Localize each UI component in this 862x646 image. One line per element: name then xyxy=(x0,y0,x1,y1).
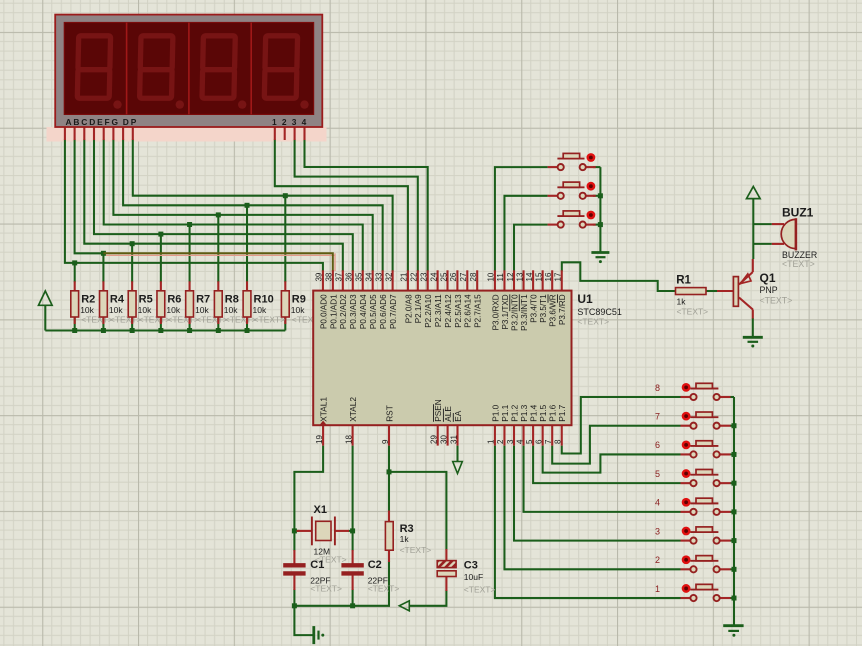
svg-text:P1.5: P1.5 xyxy=(538,404,548,421)
svg-text:13: 13 xyxy=(515,272,524,281)
svg-text:C1: C1 xyxy=(310,559,324,571)
svg-text:ALE: ALE xyxy=(443,406,453,422)
svg-text:<TEXT>: <TEXT> xyxy=(196,315,228,325)
svg-text:P3.1/TXD: P3.1/TXD xyxy=(501,294,510,329)
svg-text:P0.4/AD4: P0.4/AD4 xyxy=(359,294,368,329)
svg-text:17: 17 xyxy=(554,272,563,281)
svg-text:STC89C51: STC89C51 xyxy=(577,307,622,317)
svg-text:P1.6: P1.6 xyxy=(548,404,558,421)
svg-text:P3.6/WR: P3.6/WR xyxy=(549,294,558,327)
svg-text:1k: 1k xyxy=(400,534,410,544)
svg-text:30: 30 xyxy=(439,435,448,444)
svg-text:25: 25 xyxy=(439,272,448,281)
svg-text:10k: 10k xyxy=(166,305,180,315)
svg-text:18: 18 xyxy=(344,435,353,444)
svg-text:3: 3 xyxy=(655,526,660,536)
svg-text:C3: C3 xyxy=(464,560,478,572)
svg-text:P3.3/INT1: P3.3/INT1 xyxy=(520,294,529,331)
svg-text:8: 8 xyxy=(554,439,563,444)
svg-text:3: 3 xyxy=(506,439,515,444)
svg-text:R9: R9 xyxy=(292,294,306,306)
svg-text:P0.5/AD5: P0.5/AD5 xyxy=(369,294,378,329)
svg-text:8: 8 xyxy=(655,383,660,393)
svg-text:<TEXT>: <TEXT> xyxy=(139,315,171,325)
svg-text:10k: 10k xyxy=(224,305,238,315)
svg-text:P0.2/AD2: P0.2/AD2 xyxy=(339,294,348,329)
svg-text:4: 4 xyxy=(515,439,524,444)
svg-text:<TEXT>: <TEXT> xyxy=(167,315,199,325)
svg-text:<TEXT>: <TEXT> xyxy=(400,545,432,555)
svg-text:10k: 10k xyxy=(291,305,305,315)
svg-text:P2.6/A14: P2.6/A14 xyxy=(464,294,473,328)
svg-text:DP: DP xyxy=(123,117,137,127)
svg-text:10k: 10k xyxy=(138,305,152,315)
svg-text:U1: U1 xyxy=(577,292,593,306)
svg-text:27: 27 xyxy=(459,272,468,281)
svg-text:X1: X1 xyxy=(314,504,327,516)
svg-text:P3.2/INT0: P3.2/INT0 xyxy=(510,294,519,331)
svg-text:P0.7/AD7: P0.7/AD7 xyxy=(389,294,398,329)
svg-text:<TEXT>: <TEXT> xyxy=(782,259,815,269)
svg-text:26: 26 xyxy=(449,272,458,281)
svg-text:P3.0/RXD: P3.0/RXD xyxy=(491,294,500,330)
svg-text:C2: C2 xyxy=(368,559,382,571)
svg-text:R8: R8 xyxy=(225,294,239,306)
svg-text:BUZ1: BUZ1 xyxy=(782,206,814,220)
svg-text:14: 14 xyxy=(525,272,534,281)
svg-text:<TEXT>: <TEXT> xyxy=(254,315,286,325)
svg-text:R1: R1 xyxy=(676,275,691,287)
svg-text:RST: RST xyxy=(384,405,394,422)
svg-text:7: 7 xyxy=(655,412,660,422)
svg-text:29: 29 xyxy=(430,435,439,444)
svg-text:4: 4 xyxy=(302,117,307,127)
svg-text:P0.3/AD3: P0.3/AD3 xyxy=(349,294,358,329)
svg-text:4: 4 xyxy=(655,498,660,508)
svg-text:<TEXT>: <TEXT> xyxy=(464,585,496,595)
svg-text:32: 32 xyxy=(384,272,393,281)
svg-text:1k: 1k xyxy=(677,297,687,307)
svg-text:P2.3/A11: P2.3/A11 xyxy=(434,294,443,327)
svg-text:37: 37 xyxy=(335,272,344,281)
svg-text:10k: 10k xyxy=(195,305,209,315)
svg-text:6: 6 xyxy=(655,440,660,450)
svg-text:<TEXT>: <TEXT> xyxy=(760,296,793,306)
svg-text:11: 11 xyxy=(496,273,505,282)
svg-text:P3.4/T0: P3.4/T0 xyxy=(530,294,539,323)
svg-text:22: 22 xyxy=(410,272,419,281)
svg-text:P2.0/A8: P2.0/A8 xyxy=(404,294,413,323)
svg-text:16: 16 xyxy=(544,272,553,281)
svg-text:P2.1/A9: P2.1/A9 xyxy=(414,294,423,323)
svg-text:1: 1 xyxy=(272,117,277,127)
svg-text:2: 2 xyxy=(655,555,660,565)
svg-text:10k: 10k xyxy=(109,305,123,315)
svg-text:XTAL2: XTAL2 xyxy=(348,397,358,422)
svg-text:P2.5/A13: P2.5/A13 xyxy=(454,294,463,328)
svg-text:<TEXT>: <TEXT> xyxy=(225,315,257,325)
svg-text:39: 39 xyxy=(315,272,324,281)
svg-text:6: 6 xyxy=(534,439,543,444)
svg-text:P2.7/A15: P2.7/A15 xyxy=(474,294,483,328)
svg-text:R7: R7 xyxy=(196,294,210,306)
svg-text:15: 15 xyxy=(534,272,543,281)
svg-text:PSEN: PSEN xyxy=(433,399,443,422)
svg-text:Q1: Q1 xyxy=(760,271,776,285)
svg-text:P1.3: P1.3 xyxy=(519,404,529,421)
svg-text:9: 9 xyxy=(381,439,390,444)
svg-text:P1.7: P1.7 xyxy=(557,404,567,421)
svg-text:EA: EA xyxy=(453,410,463,422)
svg-text:R6: R6 xyxy=(167,294,181,306)
svg-text:5: 5 xyxy=(655,469,660,479)
svg-text:23: 23 xyxy=(420,272,429,281)
svg-text:P3.7/RD: P3.7/RD xyxy=(558,294,567,325)
svg-text:36: 36 xyxy=(345,272,354,281)
svg-text:12: 12 xyxy=(506,272,515,281)
svg-text:1: 1 xyxy=(487,439,496,444)
svg-text:R10: R10 xyxy=(254,294,274,306)
svg-text:<TEXT>: <TEXT> xyxy=(110,315,142,325)
svg-text:P1.4: P1.4 xyxy=(529,404,539,421)
svg-text:3: 3 xyxy=(292,117,297,127)
svg-text:<TEXT>: <TEXT> xyxy=(368,583,400,593)
svg-text:34: 34 xyxy=(365,272,374,281)
svg-text:P1.0: P1.0 xyxy=(490,404,500,421)
svg-text:21: 21 xyxy=(400,272,409,281)
svg-text:24: 24 xyxy=(429,272,438,281)
svg-text:R5: R5 xyxy=(139,294,153,306)
svg-text:10: 10 xyxy=(487,272,496,281)
svg-text:P1.2: P1.2 xyxy=(509,404,519,421)
svg-text:19: 19 xyxy=(315,435,324,444)
svg-text:33: 33 xyxy=(375,272,384,281)
svg-text:10uF: 10uF xyxy=(464,572,483,582)
svg-text:P0.6/AD6: P0.6/AD6 xyxy=(379,294,388,329)
svg-text:P1.1: P1.1 xyxy=(500,404,510,421)
svg-text:PNP: PNP xyxy=(760,285,778,295)
svg-text:P0.1/AD1: P0.1/AD1 xyxy=(329,294,338,329)
svg-text:R4: R4 xyxy=(110,294,125,306)
svg-text:P2.2/A10: P2.2/A10 xyxy=(424,294,433,328)
svg-text:P2.4/A12: P2.4/A12 xyxy=(444,294,453,328)
svg-text:2: 2 xyxy=(496,439,505,444)
svg-text:P3.5/T1: P3.5/T1 xyxy=(539,294,548,323)
svg-text:10k: 10k xyxy=(253,305,267,315)
svg-text:35: 35 xyxy=(355,272,364,281)
svg-text:R2: R2 xyxy=(81,294,95,306)
svg-text:<TEXT>: <TEXT> xyxy=(677,307,709,317)
svg-text:1: 1 xyxy=(655,584,660,594)
svg-text:31: 31 xyxy=(449,435,458,444)
svg-text:10k: 10k xyxy=(80,305,94,315)
svg-text:<TEXT>: <TEXT> xyxy=(310,583,342,593)
svg-text:<TEXT>: <TEXT> xyxy=(577,317,609,327)
svg-text:5: 5 xyxy=(525,439,534,444)
svg-text:XTAL1: XTAL1 xyxy=(319,397,329,422)
svg-text:7: 7 xyxy=(544,439,553,444)
svg-text:28: 28 xyxy=(469,272,478,281)
svg-text:2: 2 xyxy=(282,117,287,127)
svg-text:38: 38 xyxy=(325,272,334,281)
svg-text:<TEXT>: <TEXT> xyxy=(81,315,113,325)
svg-text:P0.0/AD0: P0.0/AD0 xyxy=(319,294,328,329)
